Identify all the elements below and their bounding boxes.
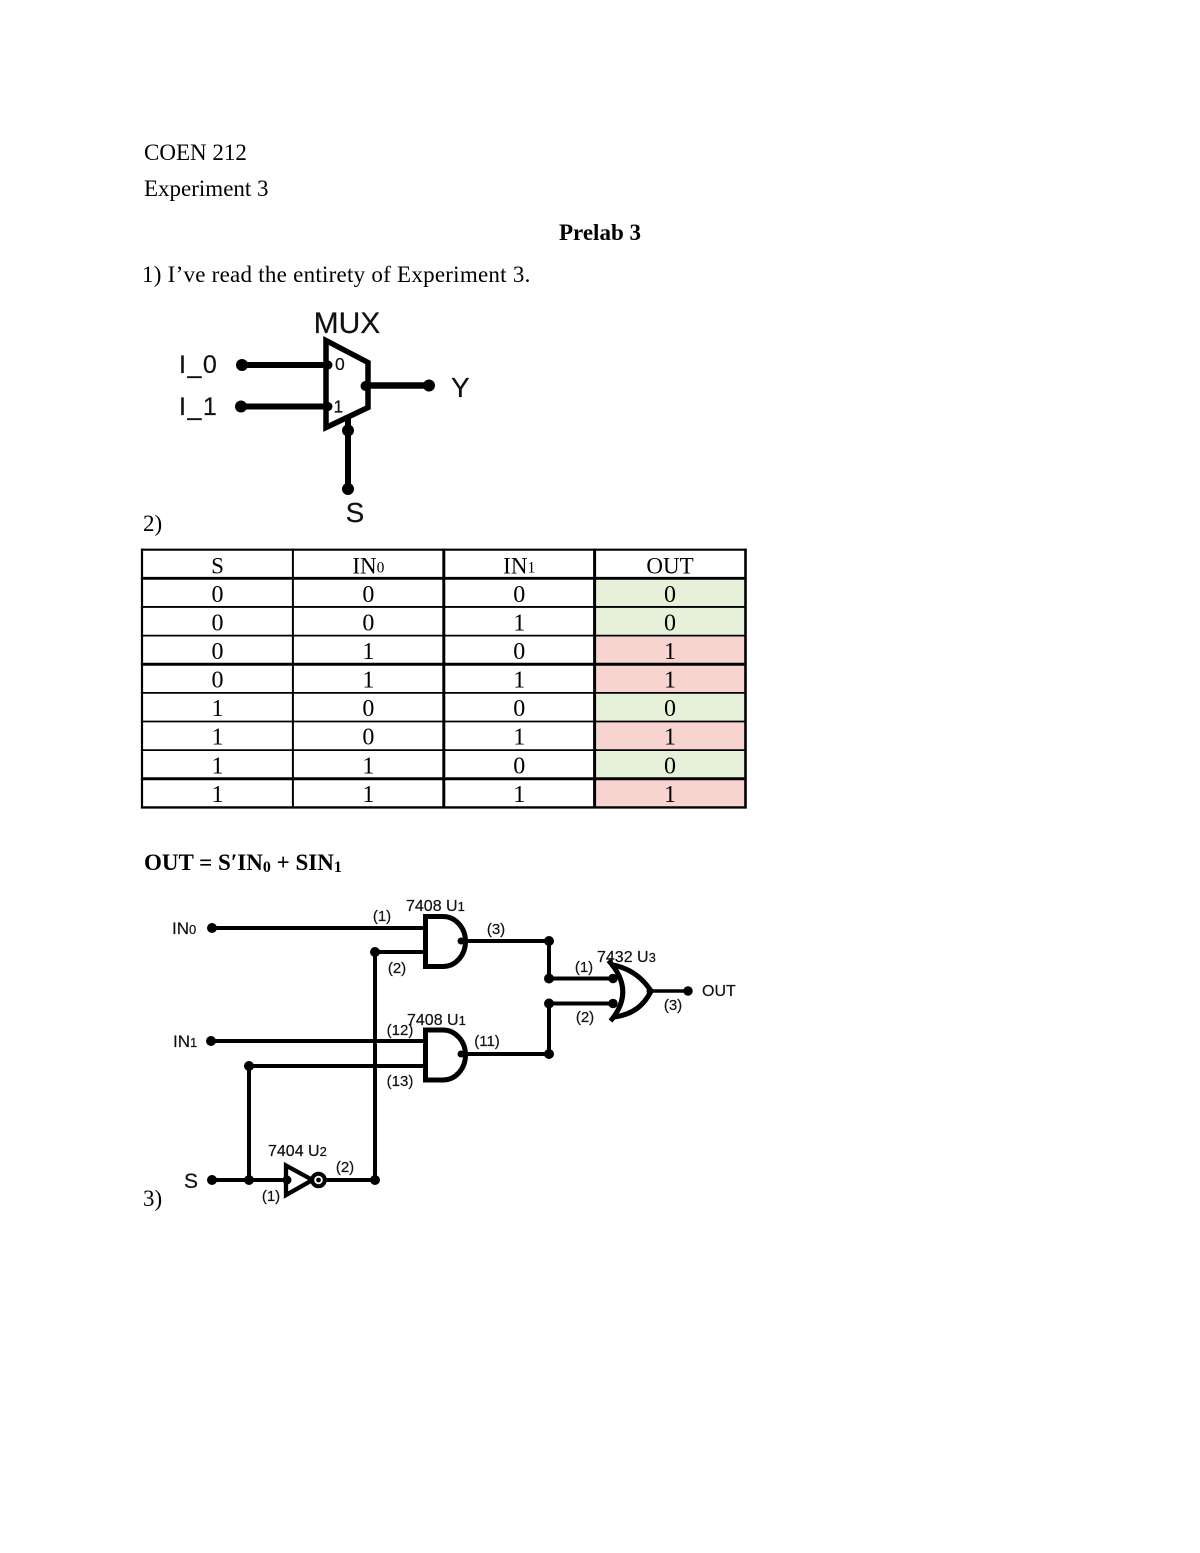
svg-text:(1): (1) xyxy=(262,1188,280,1205)
svg-text:(1): (1) xyxy=(373,908,391,925)
svg-text:S: S xyxy=(184,1170,198,1193)
svg-text:0: 0 xyxy=(212,639,224,665)
svg-text:0: 0 xyxy=(362,582,374,608)
svg-text:1: 1 xyxy=(664,782,676,808)
svg-text:S: S xyxy=(346,497,365,528)
svg-text:1: 1 xyxy=(334,397,344,417)
svg-text:1: 1 xyxy=(664,668,676,694)
svg-text:0: 0 xyxy=(513,582,525,608)
svg-text:I_1: I_1 xyxy=(179,393,218,421)
svg-text:0: 0 xyxy=(212,611,224,637)
svg-text:1: 1 xyxy=(513,725,525,751)
svg-text:0: 0 xyxy=(212,668,224,694)
svg-text:1: 1 xyxy=(212,725,224,751)
svg-text:MUX: MUX xyxy=(314,307,381,340)
svg-text:0: 0 xyxy=(513,696,525,722)
svg-text:IN1: IN1 xyxy=(503,554,535,579)
svg-text:(3): (3) xyxy=(664,997,682,1014)
svg-text:IN0: IN0 xyxy=(172,919,196,938)
svg-text:(11): (11) xyxy=(474,1033,500,1050)
svg-text:0: 0 xyxy=(513,754,525,780)
svg-text:IN0: IN0 xyxy=(352,554,384,579)
svg-text:7432 U3: 7432 U3 xyxy=(597,949,656,966)
svg-text:1: 1 xyxy=(362,782,374,808)
svg-text:0: 0 xyxy=(664,582,676,608)
svg-text:0: 0 xyxy=(664,696,676,722)
svg-text:1: 1 xyxy=(212,696,224,722)
svg-text:1: 1 xyxy=(513,782,525,808)
svg-text:(3): (3) xyxy=(487,921,505,938)
svg-text:0: 0 xyxy=(362,611,374,637)
svg-text:1: 1 xyxy=(664,725,676,751)
svg-text:0: 0 xyxy=(362,696,374,722)
svg-text:(12): (12) xyxy=(387,1022,414,1039)
svg-text:OUT: OUT xyxy=(702,983,736,1000)
svg-text:S: S xyxy=(211,554,224,579)
svg-text:1: 1 xyxy=(212,754,224,780)
svg-text:0: 0 xyxy=(664,754,676,780)
svg-text:0: 0 xyxy=(212,582,224,608)
svg-text:1: 1 xyxy=(513,668,525,694)
svg-text:0: 0 xyxy=(664,611,676,637)
svg-text:Y: Y xyxy=(451,372,470,403)
svg-text:7408 U1: 7408 U1 xyxy=(406,898,465,915)
svg-text:0: 0 xyxy=(362,725,374,751)
svg-text:I_0: I_0 xyxy=(179,351,218,379)
svg-text:(1): (1) xyxy=(575,959,593,976)
svg-text:1: 1 xyxy=(362,639,374,665)
svg-text:(2): (2) xyxy=(336,1159,354,1176)
svg-text:0: 0 xyxy=(335,354,345,374)
svg-text:1: 1 xyxy=(212,782,224,808)
svg-text:(2): (2) xyxy=(576,1009,594,1026)
svg-text:1: 1 xyxy=(362,668,374,694)
svg-text:IN1: IN1 xyxy=(173,1032,197,1051)
svg-text:(2): (2) xyxy=(388,960,406,977)
svg-text:(13): (13) xyxy=(387,1073,414,1090)
svg-text:7408 U1: 7408 U1 xyxy=(407,1012,466,1029)
svg-text:0: 0 xyxy=(513,639,525,665)
svg-text:1: 1 xyxy=(513,611,525,637)
svg-text:7404 U2: 7404 U2 xyxy=(268,1143,327,1160)
svg-text:1: 1 xyxy=(664,639,676,665)
svg-text:OUT: OUT xyxy=(646,554,693,579)
svg-text:1: 1 xyxy=(362,754,374,780)
